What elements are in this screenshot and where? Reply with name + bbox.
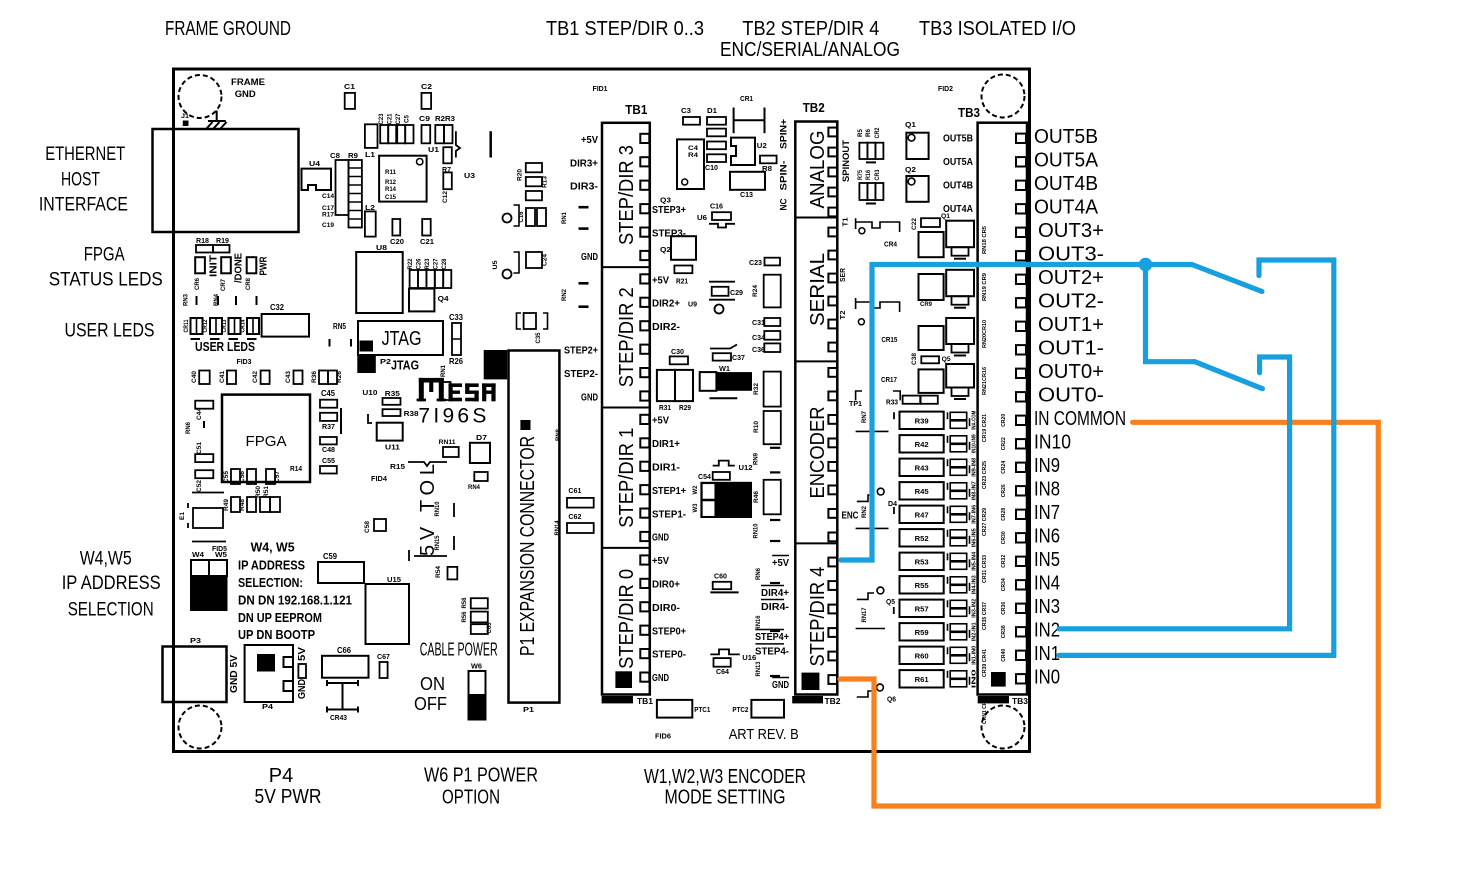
- svg-text:R24: R24: [752, 285, 759, 297]
- svg-text:DIR0+: DIR0+: [652, 579, 680, 591]
- svg-text:C2: C2: [421, 82, 432, 91]
- svg-text:L1: L1: [365, 150, 375, 159]
- svg-text:GND: GND: [581, 251, 598, 263]
- svg-text:C20: C20: [390, 237, 404, 246]
- svg-text:USER LEDS: USER LEDS: [65, 321, 155, 342]
- resistors R31 R29: [657, 370, 675, 401]
- svg-text:R55: R55: [915, 581, 929, 590]
- svg-text:CR35 CR37: CR35 CR37: [982, 602, 988, 630]
- svg-text:R9: R9: [348, 151, 358, 160]
- svg-text:C12: C12: [442, 191, 449, 203]
- svg-text:DN DN 192.168.1.121: DN DN 192.168.1.121: [238, 593, 352, 608]
- svg-text:5V PWR: 5V PWR: [255, 786, 322, 808]
- svg-text:GND: GND: [652, 532, 669, 544]
- capacitor C29 U9: [709, 281, 735, 283]
- input resistor column R39..R61: [900, 412, 944, 429]
- svg-text:U15: U15: [387, 575, 401, 584]
- svg-text:DIR3-: DIR3-: [570, 181, 599, 193]
- svg-text:USER LEDS: USER LEDS: [195, 339, 255, 354]
- svg-text:OUT1+: OUT1+: [1038, 314, 1104, 336]
- svg-text:T1: T1: [843, 217, 850, 226]
- svg-text:RN4: RN4: [213, 294, 220, 306]
- svg-text:P3: P3: [190, 636, 201, 645]
- wire blue branch down: [1146, 265, 1195, 362]
- svg-text:TB3 ISOLATED I/O: TB3 ISOLATED I/O: [919, 18, 1076, 40]
- svg-text:OUT2+: OUT2+: [1038, 267, 1104, 289]
- svg-text:CR34: CR34: [1001, 577, 1007, 591]
- capacitor CR43: [327, 682, 358, 684]
- svg-text:RN15: RN15: [434, 535, 441, 550]
- svg-text:C66: C66: [337, 645, 351, 655]
- svg-text:OFF: OFF: [414, 694, 447, 714]
- switch 2 contact and wire to IN2: [1059, 357, 1289, 629]
- svg-text:STEP3-: STEP3-: [652, 228, 686, 240]
- svg-text:TB3: TB3: [958, 105, 980, 120]
- wire orange IN COMMON loop: [840, 422, 1378, 806]
- svg-text:D1: D1: [707, 106, 717, 115]
- svg-text:RN16: RN16: [755, 615, 762, 630]
- svg-text:STEP1-: STEP1-: [652, 508, 686, 520]
- svg-text:RN14: RN14: [554, 520, 561, 535]
- svg-text:R56: R56: [462, 611, 468, 623]
- LED CR8 PWR: [247, 257, 257, 273]
- svg-text:R75: R75: [858, 169, 864, 180]
- svg-text:RN20CR10: RN20CR10: [982, 320, 988, 348]
- svg-text:Q5: Q5: [886, 599, 895, 606]
- PTC1: [657, 700, 692, 718]
- FPGA U2: [222, 395, 310, 482]
- svg-text:P4: P4: [269, 765, 293, 787]
- svg-text:IN1: IN1: [1034, 643, 1060, 665]
- switch blade 2: [1195, 362, 1263, 389]
- TB1 pins: [640, 134, 649, 143]
- svg-text:U5: U5: [492, 260, 499, 269]
- svg-text:C24: C24: [542, 254, 549, 266]
- svg-text:GND: GND: [652, 672, 669, 684]
- TB2 pins: [828, 128, 837, 137]
- svg-text:R35: R35: [385, 389, 400, 398]
- svg-text:W6 P1 POWER: W6 P1 POWER: [424, 765, 538, 787]
- svg-text:IP ADDRESS: IP ADDRESS: [238, 558, 305, 573]
- svg-text:NC: NC: [778, 198, 788, 210]
- svg-text:ENC: ENC: [842, 510, 859, 522]
- svg-text:R26: R26: [336, 371, 343, 383]
- svg-text:CR27 CR29: CR27 CR29: [982, 508, 988, 536]
- svg-text:E1: E1: [180, 511, 186, 520]
- svg-text:R61: R61: [915, 675, 929, 684]
- svg-text:R42: R42: [915, 440, 929, 449]
- svg-text:W5: W5: [215, 550, 227, 559]
- svg-text:W6: W6: [471, 662, 482, 671]
- svg-text:U4: U4: [309, 159, 321, 168]
- svg-text:C45: C45: [321, 388, 335, 398]
- svg-text:OUT4A: OUT4A: [943, 204, 973, 215]
- svg-text:CR23 CR25: CR23 CR25: [982, 461, 988, 489]
- svg-text:CR39 CR41: CR39 CR41: [982, 649, 988, 677]
- svg-text:RN17: RN17: [861, 607, 868, 622]
- svg-text:FID2: FID2: [938, 84, 953, 93]
- svg-text:U11: U11: [385, 443, 400, 452]
- svg-text:CR26: CR26: [1001, 484, 1007, 497]
- svg-text:R33: R33: [886, 400, 898, 407]
- svg-text:IN10: IN10: [1034, 431, 1071, 453]
- svg-text:C29: C29: [730, 288, 743, 297]
- svg-text:DIR2-: DIR2-: [652, 321, 681, 333]
- svg-text:R45: R45: [915, 487, 929, 496]
- svg-text:STEP/DIR 2: STEP/DIR 2: [616, 287, 638, 387]
- inductor L1: [365, 124, 378, 148]
- switch blade 1: [1192, 265, 1262, 292]
- svg-text:U10: U10: [362, 388, 377, 397]
- svg-text:C26: C26: [417, 258, 423, 270]
- ground symbol: [216, 111, 218, 122]
- svg-text:R38: R38: [404, 409, 419, 418]
- svg-text:R57: R57: [915, 604, 929, 613]
- svg-text:FID4: FID4: [371, 474, 388, 483]
- svg-text:IN4: IN4: [1034, 572, 1060, 594]
- svg-text:RN1: RN1: [440, 365, 447, 377]
- svg-text:CR38: CR38: [1001, 625, 1007, 638]
- svg-text:R15: R15: [390, 462, 405, 471]
- svg-text:SPINOUT: SPINOUT: [841, 139, 851, 182]
- svg-text:RN8: RN8: [555, 429, 562, 441]
- connector P4: [245, 645, 293, 702]
- svg-text:C60: C60: [714, 572, 727, 581]
- svg-text:R46: R46: [753, 491, 760, 503]
- svg-text:C10: C10: [705, 163, 718, 172]
- svg-text:W4,W5: W4,W5: [80, 549, 132, 570]
- svg-text:CR19 CR21: CR19 CR21: [982, 414, 988, 442]
- svg-text:7I96S: 7I96S: [418, 405, 486, 428]
- svg-text:CR15: CR15: [881, 335, 897, 344]
- svg-text:R32: R32: [753, 383, 760, 395]
- svg-text:CR14: CR14: [240, 319, 247, 332]
- svg-text:CR4: CR4: [884, 240, 898, 249]
- svg-text:RN19 CR9: RN19 CR9: [982, 273, 988, 301]
- svg-text:TB2: TB2: [803, 100, 825, 115]
- svg-text:OUT5A: OUT5A: [1034, 149, 1099, 171]
- svg-text:TB1: TB1: [625, 102, 647, 117]
- svg-text:INTERFACE: INTERFACE: [39, 194, 128, 215]
- svg-text:STEP/DIR 1: STEP/DIR 1: [616, 428, 638, 528]
- svg-text:P4: P4: [262, 702, 274, 711]
- svg-text:+5V: +5V: [772, 557, 789, 569]
- svg-text:PTC2: PTC2: [732, 705, 748, 714]
- switch 1 contact and wire to IN1: [1059, 260, 1334, 655]
- svg-text:C5: C5: [405, 114, 411, 123]
- svg-text:CR7: CR7: [220, 279, 227, 291]
- svg-text:OUT0-: OUT0-: [1038, 384, 1104, 406]
- svg-text:RN9: RN9: [753, 453, 760, 465]
- svg-text:RN13: RN13: [755, 661, 762, 676]
- capacitor C35: [517, 313, 522, 329]
- svg-text:C52: C52: [196, 480, 203, 492]
- TB3 bottom: [991, 672, 1006, 687]
- svg-text:ANALOG: ANALOG: [807, 131, 829, 209]
- svg-text:FID6: FID6: [655, 732, 671, 741]
- svg-text:HOST: HOST: [61, 169, 100, 190]
- svg-text:C35: C35: [536, 332, 542, 344]
- svg-text:DIR3+: DIR3+: [570, 157, 598, 169]
- svg-text:R53: R53: [915, 557, 929, 566]
- svg-text:C33: C33: [449, 312, 463, 322]
- svg-text:R49: R49: [223, 499, 230, 511]
- svg-text:RN6: RN6: [755, 568, 762, 580]
- svg-text:SER: SER: [840, 268, 847, 282]
- capacitor C37: [710, 345, 737, 349]
- svg-text:RN11: RN11: [439, 439, 456, 446]
- svg-text:R5: R5: [858, 128, 864, 137]
- svg-text:P1 EXPANSION CONNECTOR: P1 EXPANSION CONNECTOR: [517, 436, 539, 656]
- svg-text:U6: U6: [697, 213, 707, 222]
- junction dot: [1139, 258, 1153, 272]
- svg-text:DIR4+: DIR4+: [761, 587, 789, 599]
- svg-text:C56: C56: [239, 471, 246, 483]
- svg-text:FPGA: FPGA: [246, 434, 287, 450]
- svg-text:TB2 STEP/DIR 4: TB2 STEP/DIR 4: [742, 18, 879, 40]
- MESA logo: [417, 378, 496, 401]
- svg-text:PWR: PWR: [258, 256, 270, 275]
- svg-text:R58: R58: [462, 597, 468, 609]
- svg-text:CR28: CR28: [1001, 508, 1007, 521]
- svg-text:R18: R18: [196, 236, 209, 245]
- svg-text:CR2: CR2: [875, 127, 881, 139]
- svg-text:C21: C21: [420, 237, 434, 246]
- svg-text:CABLE POWER: CABLE POWER: [420, 640, 498, 660]
- svg-text:RN21CR16: RN21CR16: [982, 367, 988, 395]
- svg-text:R11: R11: [385, 169, 396, 176]
- svg-text:STEP2+: STEP2+: [564, 345, 598, 357]
- output driver transistors column: [946, 221, 974, 248]
- svg-text:IN0: IN0: [1034, 666, 1060, 688]
- mounting hole bottom-left: [179, 706, 222, 749]
- svg-text:C21: C21: [388, 113, 394, 125]
- svg-text:C51: C51: [196, 442, 203, 454]
- svg-text:C67: C67: [377, 652, 390, 661]
- svg-text:R54: R54: [435, 566, 442, 578]
- svg-text:U8: U8: [376, 243, 387, 252]
- svg-text:Q2: Q2: [660, 245, 671, 254]
- svg-text:R52: R52: [915, 534, 929, 543]
- svg-text:RN1: RN1: [561, 212, 568, 224]
- svg-text:C28: C28: [442, 258, 448, 270]
- svg-text:OUT5B: OUT5B: [943, 133, 973, 144]
- svg-text:OUT3+: OUT3+: [1038, 220, 1104, 242]
- svg-text:RN3: RN3: [183, 294, 190, 306]
- svg-text:R20: R20: [517, 169, 524, 181]
- svg-text:R2: R2: [435, 114, 445, 123]
- svg-text:+5V: +5V: [652, 555, 669, 567]
- svg-text:C8: C8: [330, 151, 340, 160]
- svg-text:5V: 5V: [296, 647, 308, 661]
- svg-text:TB3: TB3: [1012, 697, 1029, 706]
- svg-text:OUT0+: OUT0+: [1038, 361, 1104, 383]
- svg-text:/DONE: /DONE: [233, 253, 245, 283]
- svg-text:Q5: Q5: [942, 356, 951, 363]
- svg-text:RN10: RN10: [434, 501, 441, 516]
- svg-text:IN9: IN9: [1034, 455, 1060, 477]
- svg-text:C58: C58: [364, 521, 371, 533]
- svg-text:JTAG: JTAG: [391, 358, 419, 373]
- svg-text:R14: R14: [385, 186, 396, 193]
- svg-text:SPIN+: SPIN+: [778, 119, 788, 149]
- svg-text:CR20: CR20: [1001, 414, 1007, 427]
- svg-text:C15: C15: [385, 194, 396, 201]
- TB2 bottom: [802, 673, 820, 690]
- svg-text:R22: R22: [408, 258, 414, 270]
- svg-text:Q6: Q6: [887, 697, 896, 704]
- 5V TOL bracket bottom: [408, 550, 410, 561]
- resistor R37: [320, 413, 337, 421]
- svg-text:+5V: +5V: [652, 274, 669, 286]
- svg-text:CR22: CR22: [1001, 437, 1007, 450]
- svg-text:STEP2-: STEP2-: [564, 368, 598, 380]
- svg-text:C13: C13: [740, 190, 753, 199]
- svg-text:IN8: IN8: [1034, 478, 1060, 500]
- svg-text:OUT5A: OUT5A: [943, 157, 973, 168]
- svg-text:CR13: CR13: [221, 319, 228, 332]
- resistor R21: [674, 266, 692, 274]
- svg-text:RN6: RN6: [185, 422, 192, 434]
- svg-text:+5V: +5V: [652, 415, 669, 427]
- capacitor C53: [195, 470, 213, 478]
- svg-text:CR6: CR6: [194, 278, 201, 290]
- svg-text:R19: R19: [216, 236, 229, 245]
- LED CR6 INIT: [195, 257, 205, 273]
- svg-text:R10: R10: [753, 421, 760, 433]
- J1 pad: [183, 121, 189, 127]
- svg-text:DN UP EEPROM: DN UP EEPROM: [238, 610, 322, 625]
- svg-text:CR31 CR33: CR31 CR33: [982, 555, 988, 583]
- svg-text:MODE SETTING: MODE SETTING: [665, 787, 786, 809]
- svg-text:IN3: IN3: [1034, 596, 1060, 618]
- svg-text:STEP4+: STEP4+: [755, 631, 789, 643]
- svg-text:SERIAL: SERIAL: [807, 253, 829, 326]
- svg-text:UP DN BOOTP: UP DN BOOTP: [238, 627, 315, 642]
- svg-text:DIR0-: DIR0-: [652, 602, 681, 614]
- mounting hole top-right: [982, 75, 1025, 118]
- svg-text:W1,W2,W3 ENCODER: W1,W2,W3 ENCODER: [644, 766, 806, 788]
- svg-text:R26: R26: [449, 356, 463, 366]
- svg-text:C40: C40: [191, 371, 198, 383]
- svg-text:R60: R60: [915, 651, 929, 660]
- svg-text:FRAME: FRAME: [231, 77, 265, 88]
- svg-text:INIT: INIT: [208, 254, 220, 277]
- svg-text:CR36: CR36: [1001, 602, 1007, 615]
- svg-text:U9: U9: [688, 300, 697, 309]
- svg-text:GND: GND: [296, 679, 308, 699]
- capacitor C12: [443, 172, 452, 189]
- svg-text:R31: R31: [659, 405, 671, 412]
- svg-text:C30: C30: [671, 347, 684, 356]
- svg-text:C23: C23: [749, 258, 762, 267]
- board outline: [174, 69, 1030, 752]
- svg-text:C1: C1: [344, 82, 355, 91]
- svg-text:C32: C32: [270, 302, 284, 312]
- svg-text:C55: C55: [223, 471, 230, 483]
- diode D4: [857, 495, 874, 501]
- svg-text:U12: U12: [739, 463, 753, 472]
- svg-text:STEP1+: STEP1+: [652, 485, 686, 497]
- diode D6: [857, 691, 874, 697]
- svg-text:C65: C65: [487, 622, 493, 634]
- mounting hole bottom-right: [982, 706, 1025, 749]
- svg-text:GND: GND: [772, 679, 789, 691]
- resistor R8: [760, 156, 777, 164]
- svg-text:C57: C57: [274, 471, 281, 483]
- svg-text:ETHERNET: ETHERNET: [45, 144, 125, 165]
- svg-text:IN5: IN5: [1034, 549, 1060, 571]
- svg-text:CR24: CR24: [1001, 460, 1007, 474]
- svg-text:+5V: +5V: [581, 134, 598, 146]
- svg-text:FPGA: FPGA: [84, 244, 125, 265]
- svg-text:W3: W3: [692, 503, 699, 512]
- svg-text:Q2: Q2: [905, 165, 916, 174]
- svg-text:RN2: RN2: [561, 289, 568, 301]
- svg-text:C36: C36: [752, 345, 765, 354]
- IC U11: [377, 423, 403, 441]
- svg-text:ART REV. B: ART REV. B: [729, 726, 799, 743]
- svg-text:SELECTION: SELECTION: [68, 599, 154, 620]
- capacitor C20: [392, 219, 400, 236]
- svg-text:TB1 STEP/DIR 0..3: TB1 STEP/DIR 0..3: [546, 18, 704, 40]
- relay C4 R4: [677, 139, 704, 189]
- svg-text:IN6: IN6: [1034, 525, 1060, 547]
- svg-text:C61: C61: [568, 486, 581, 495]
- test point TP1: [856, 391, 901, 400]
- svg-text:CR40: CR40: [1001, 649, 1007, 662]
- svg-text:CR30: CR30: [1001, 531, 1007, 544]
- TB3 pins: [1016, 134, 1026, 143]
- capacitor C48: [320, 437, 337, 444]
- svg-text:R16: R16: [866, 169, 872, 180]
- svg-text:CR11: CR11: [183, 319, 190, 332]
- LED CR7 /DONE: [221, 257, 231, 273]
- svg-text:C37: C37: [732, 353, 745, 362]
- svg-text:STATUS LEDS: STATUS LEDS: [49, 270, 163, 291]
- optocoupler box row D: [919, 369, 944, 393]
- svg-text:C4: C4: [688, 145, 698, 152]
- svg-text:TP1: TP1: [849, 399, 862, 408]
- svg-text:R6: R6: [866, 128, 872, 137]
- svg-text:C31: C31: [752, 318, 765, 327]
- svg-text:C22: C22: [911, 218, 918, 230]
- svg-text:R13: R13: [542, 176, 549, 188]
- svg-text:R21: R21: [676, 276, 688, 285]
- svg-text:C54: C54: [698, 472, 712, 481]
- svg-text:DIR2+: DIR2+: [652, 298, 680, 310]
- svg-text:R4: R4: [688, 152, 698, 159]
- svg-text:Q1: Q1: [905, 120, 916, 129]
- transistor Q4: [409, 289, 434, 312]
- svg-text:R37: R37: [322, 422, 335, 431]
- svg-text:C16: C16: [519, 211, 525, 223]
- wire stub: [456, 131, 460, 157]
- wire stub 2: [489, 131, 492, 157]
- svg-text:J1: J1: [181, 114, 190, 120]
- svg-text:FRAME GROUND: FRAME GROUND: [165, 18, 291, 40]
- svg-text:R12: R12: [385, 179, 396, 186]
- svg-text:C19: C19: [322, 222, 334, 229]
- svg-text:CR9: CR9: [920, 301, 932, 308]
- svg-text:C9: C9: [419, 114, 430, 123]
- capacitor C13: [730, 172, 765, 190]
- 5V TOL bracket top: [408, 462, 447, 466]
- resistor R38: [383, 409, 401, 416]
- svg-text:R23: R23: [425, 258, 431, 270]
- svg-text:RN5: RN5: [333, 322, 346, 331]
- svg-text:Q3: Q3: [660, 196, 671, 205]
